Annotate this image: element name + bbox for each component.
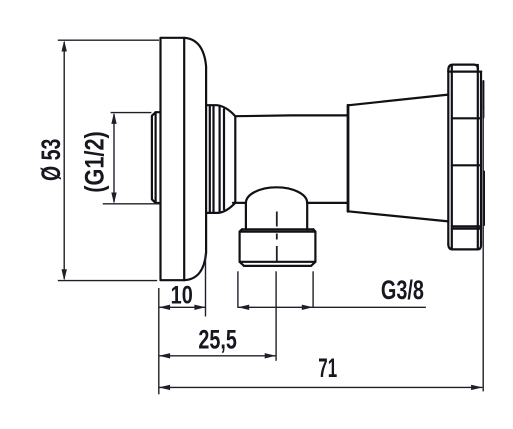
valve body cylinder (233, 115, 347, 202)
outlet centerline (dashed) (276, 212, 278, 262)
svg-text:10: 10 (171, 280, 193, 309)
handle knob (448, 65, 484, 250)
dimension 71 (159, 110, 483, 391)
dimension Ø53 (36, 40, 159, 280)
dimension 25,5 (159, 271, 276, 361)
dimension (G1/2) (81, 113, 161, 204)
collar rings between flange and body (206, 105, 235, 213)
svg-text:G3/8: G3/8 (381, 275, 424, 304)
svg-text:(G1/2): (G1/2) (81, 131, 111, 193)
svg-text:Ø 53: Ø 53 (36, 139, 66, 181)
outlet tube sides (246, 203, 307, 229)
dimension G3/8 (238, 271, 426, 310)
G1/2 threaded inlet nipple (152, 112, 160, 203)
outlet dome fillet (246, 187, 307, 203)
wall flange (rosette) (161, 38, 207, 280)
bonnet cone (348, 95, 448, 222)
outlet nut G3/8 (240, 229, 316, 266)
svg-text:25,5: 25,5 (198, 324, 236, 353)
dimension 10 (159, 253, 206, 394)
svg-text:71: 71 (318, 353, 337, 383)
